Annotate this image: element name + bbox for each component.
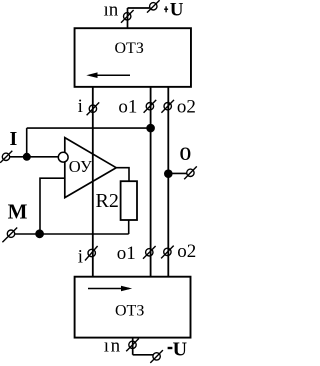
svg-text:I: I <box>10 128 18 150</box>
contact symbol on o1 bus (bottom) <box>143 246 156 259</box>
svg-text:o2: o2 <box>177 97 196 118</box>
wire I junction riser <box>26 128 28 157</box>
wire I input to op-amp <box>10 156 58 158</box>
wire op-amp output to R2 <box>116 168 129 182</box>
wire -U horizontal run <box>133 354 153 356</box>
svg-text:ın: ın <box>104 0 119 21</box>
terminal contact on -U stub <box>126 339 139 352</box>
wire R2 bottom lead <box>128 220 130 234</box>
svg-text:i: i <box>78 246 83 267</box>
label +U <box>164 0 184 21</box>
terminal I <box>0 151 12 163</box>
svg-text:o1: o1 <box>118 97 137 118</box>
op-amp U1 triangle <box>65 138 116 198</box>
terminal O <box>184 166 197 179</box>
op-amp inversion bubble <box>58 152 68 162</box>
svg-text:ОТЗ: ОТЗ <box>115 40 144 57</box>
wire O output <box>168 172 187 174</box>
terminal M <box>2 228 17 243</box>
arrow (top box, pointing left) <box>86 72 130 78</box>
terminal contact on +U stub <box>121 10 134 23</box>
resistor R2 <box>121 181 137 220</box>
wire i bus (top box to bottom box) <box>92 87 94 276</box>
svg-text:R2: R2 <box>96 190 119 212</box>
contact symbol on o2 bus (top) <box>161 100 174 113</box>
node junction on o1 bus <box>146 124 155 133</box>
contact symbol on i bus (top) <box>87 102 100 115</box>
wire feedback I to o1 <box>27 127 151 129</box>
svg-text:o1: o1 <box>117 243 136 264</box>
wire o1 bus <box>150 87 152 276</box>
svg-text:U: U <box>170 0 184 21</box>
wire M riser to op-amp input <box>40 178 65 234</box>
svg-text:M: M <box>8 200 28 224</box>
wire o2 bus <box>167 87 169 276</box>
contact symbol on o1 bus (top) <box>144 100 157 113</box>
contact symbol on o2 bus (bottom) <box>161 246 174 259</box>
svg-text:ОУ: ОУ <box>69 157 92 176</box>
block A2 OT3 (bottom box) <box>75 277 191 338</box>
label -U <box>168 339 187 361</box>
svg-text:ın: ın <box>104 336 122 357</box>
terminal -U end contact <box>150 350 163 363</box>
wire M net horizontal <box>15 233 129 235</box>
svg-text:U: U <box>173 339 187 361</box>
wire +U vertical stub to top box <box>127 8 129 28</box>
wire -U vertical stub from bottom box <box>132 338 134 355</box>
contact symbol on i bus (bottom) <box>85 246 98 261</box>
arrow (bottom box, pointing right) <box>88 286 132 292</box>
wire +U horizontal run <box>128 7 150 9</box>
node junction on o2 bus <box>164 169 173 178</box>
svg-text:ОТЗ: ОТЗ <box>115 303 144 320</box>
node M junction <box>35 229 44 238</box>
node I junction <box>23 153 31 161</box>
block A1 OT3 (top box) <box>75 28 191 87</box>
svg-text:o2: o2 <box>177 241 196 262</box>
svg-text:i: i <box>78 96 83 117</box>
svg-text:O: O <box>180 144 192 165</box>
terminal +U end contact <box>147 0 160 12</box>
